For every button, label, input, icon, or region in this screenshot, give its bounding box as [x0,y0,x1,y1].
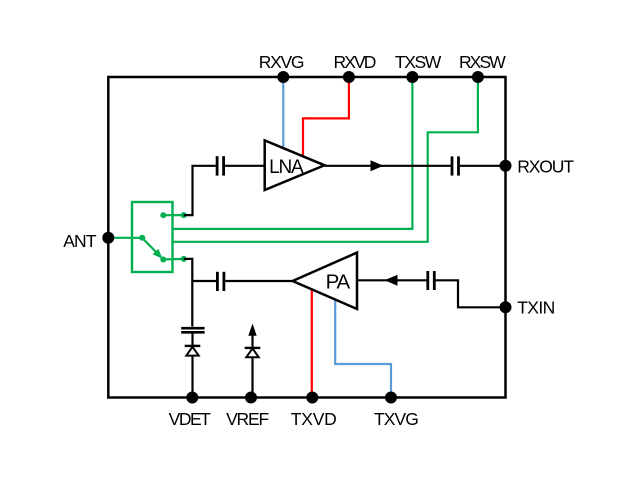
svg-text:RXSW: RXSW [459,52,506,72]
wire TXVD supply (red) [311,290,313,397]
svg-text:VREF: VREF [226,409,268,429]
switch SW1 RX throw node (inner) [160,212,166,218]
svg-text:TXSW: TXSW [395,52,442,72]
wire D2 up [251,336,253,348]
pin VDET [186,392,198,404]
svg-text:VDET: VDET [169,409,211,429]
svg-text:RXVD: RXVD [333,52,375,72]
wire RXVG bias (blue) [282,77,284,150]
wire switch RX throw to C1 [184,166,216,215]
diode D1 (detector) [185,346,201,356]
wire C5 to D1 [191,334,193,347]
wire TXSW control (green) [173,77,413,229]
switch SW1 pole node [139,235,145,241]
svg-text:PA: PA [326,271,351,294]
op-amp LNA U1 [265,140,325,190]
op-amp PA U2 [293,253,357,309]
svg-text:ANT: ANT [63,231,97,251]
arrow TX signal direction [385,275,398,286]
node RX throw (outer) [181,212,187,218]
svg-text:RXOUT: RXOUT [517,157,574,177]
node TX throw (outer) [181,256,187,262]
capacitor C2 (RX output) [452,156,459,175]
pin RXVD [343,71,355,83]
wire LNA output to C2 [325,165,452,167]
arrow RX signal direction [371,160,384,171]
wire C3 to antenna-switch junction [192,280,216,282]
wire TXVG bias (blue) [335,300,391,397]
arrow VREF (current source) [248,324,256,336]
svg-text:TXVG: TXVG [374,409,418,429]
svg-text:TXIN: TXIN [517,297,554,317]
wire VREF pin to D2 [251,357,253,397]
switch SW1 TX throw node (inner) [160,257,166,263]
wire switch TX throw to junction to C5 [184,259,193,327]
pin RXVG [277,71,289,83]
wire TXIN pin to C4 [436,280,506,307]
pin RXOUT [500,160,512,172]
pin RXSW [472,71,484,83]
wire green TX throw stub [163,258,183,261]
capacitor C4 (TX input) [428,271,435,290]
svg-text:RXVG: RXVG [259,52,304,72]
wire C4 to PA input [358,279,427,281]
wire green RX throw stub [163,214,183,216]
capacitor C5 (detector) [181,328,204,332]
wire D1 to VDET pin [191,356,193,397]
pin TXVG [385,392,397,404]
pin TXVD [306,392,318,404]
wire C2 to RXOUT pin [460,165,506,167]
wire PA output to C3 [225,280,292,282]
svg-text:LNA: LNA [269,157,304,178]
wire RXVD supply (red) [303,77,349,157]
pin TXIN [500,301,512,313]
wire C1 to LNA [225,165,265,167]
pin VREF [245,392,257,404]
pin TXSW [406,71,418,83]
pin ANT [102,232,114,244]
wire RXSW control (green) [173,77,478,242]
capacitor C3 (PA output) [217,272,224,291]
switch SW1 arm [142,238,162,259]
switch SW1 body [132,202,173,272]
svg-text:TXVD: TXVD [291,409,337,429]
IC package outline [108,77,505,398]
diode D2 (reference) [245,348,261,357]
capacitor C1 (LNA input) [217,156,224,175]
wire green ANT to switch pole [108,237,143,239]
